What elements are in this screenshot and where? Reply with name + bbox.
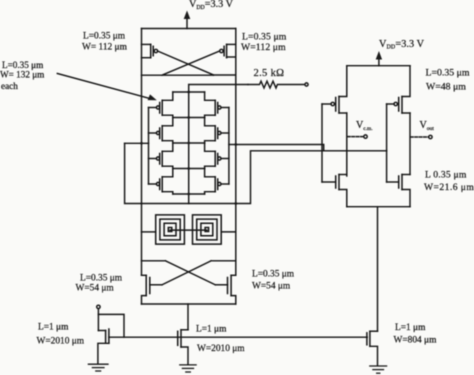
- transistor M6 (diode-connected mirror reference): [98, 329, 109, 363]
- ground (VCO tail): [180, 365, 196, 372]
- annotation arrow to varactors: [57, 74, 157, 101]
- svg-text:L=0.35 μm: L=0.35 μm: [80, 274, 123, 284]
- transistor M8 (buffer NMOS 1): [322, 175, 347, 207]
- svg-text:W=804 μm: W=804 μm: [394, 336, 438, 346]
- wire: outer-left return: [125, 143, 142, 203]
- buffer VDD rail: [347, 65, 410, 67]
- transistor M7 (buffer PMOS 1): [322, 66, 347, 113]
- wire: right inductor lead: [221, 231, 236, 233]
- right rail (node B): [235, 29, 237, 276]
- buffer source rail: [347, 206, 410, 208]
- wire: mirror gate line to tails: [109, 336, 367, 338]
- wire: VCO output to buffer (lower loop): [236, 151, 387, 204]
- left gate bus: [148, 108, 150, 185]
- varactor C2 (row 2 left): [149, 118, 173, 144]
- wire: left bus tie to rail: [125, 142, 149, 145]
- svg-text:W= 132 μm: W= 132 μm: [0, 70, 44, 80]
- svg-text:each: each: [1, 81, 18, 91]
- transistor M2 (right PMOS of cross-coupled pair): [220, 44, 236, 57]
- varactor C8 (row 4 right): [205, 169, 229, 195]
- svg-text:L=0.35 μm: L=0.35 μm: [242, 32, 287, 43]
- varactor rails (5 horizontal rungs): [173, 92, 205, 194]
- output-2 terminal: [411, 135, 433, 138]
- svg-text:L=1 μm: L=1 μm: [38, 323, 69, 333]
- buffer VDD arrow: [376, 51, 382, 66]
- varactor C3 (row 3 left): [149, 143, 173, 169]
- wire: diode tie: [98, 314, 124, 337]
- svg-text:L=0.35 μm: L=0.35 μm: [83, 32, 126, 42]
- wire: buffer tail stem: [377, 207, 379, 332]
- svg-text:W= 112 μm: W= 112 μm: [82, 43, 128, 53]
- VDD supply arrow: [184, 11, 191, 29]
- varactor C6 (row 2 right): [205, 118, 229, 144]
- svg-text:W=2010 μm: W=2010 μm: [37, 337, 85, 347]
- junction dots on center line: [187, 91, 190, 196]
- transistor M9 (buffer PMOS 2): [387, 66, 410, 113]
- svg-text:W=21.6 μm: W=21.6 μm: [424, 182, 474, 193]
- svg-text:2.5 kΩ: 2.5 kΩ: [254, 68, 285, 79]
- inductor L1 (left spiral): [156, 215, 185, 244]
- VDD top rail: [142, 28, 236, 30]
- output-1 terminal: [348, 135, 368, 138]
- svg-text:L=0.35 μm: L=0.35 μm: [252, 270, 295, 280]
- svg-text:W=54 μm: W=54 μm: [76, 284, 115, 294]
- svg-text:L 0.35 μm: L 0.35 μm: [425, 170, 467, 181]
- inductor L2 (right spiral): [193, 215, 222, 244]
- control node stub to resistor: [188, 84, 248, 92]
- ground (mirror): [88, 364, 108, 371]
- svg-text:W=112 μm: W=112 μm: [241, 42, 286, 53]
- inverter-1 gate bus: [321, 104, 323, 182]
- svg-text:L=0.35 μm: L=0.35 μm: [426, 68, 470, 79]
- NMOS pair source rail: [142, 303, 236, 305]
- svg-text:W=48 μm: W=48 μm: [426, 82, 466, 93]
- wire: inverter-2 output: [409, 113, 411, 175]
- svg-text:L=1 μm: L=1 μm: [196, 325, 227, 335]
- bias input terminal: [97, 305, 100, 330]
- wire: inverter-1 output: [346, 113, 348, 176]
- resistor R1 2.5 kOhm: [248, 81, 308, 88]
- wire: tail stem: [187, 304, 189, 330]
- svg-text:Vout: Vout: [420, 120, 435, 132]
- wire: VCO output to buffer (upper): [236, 145, 324, 151]
- svg-text:VDD=3.3 V: VDD=3.3 V: [189, 0, 234, 11]
- wire: left inductor lead: [142, 231, 156, 233]
- varactor C4 (row 4 left): [149, 169, 173, 195]
- varactor C5 (row 1 right): [205, 92, 229, 118]
- svg-text:VDD=3.3 V: VDD=3.3 V: [379, 39, 425, 51]
- svg-text:W=54 μm: W=54 μm: [252, 282, 291, 292]
- varactor C7 (row 3 right): [205, 143, 229, 169]
- transistor M4 (right NMOS of cross-coupled pair): [215, 275, 236, 304]
- wire: NMOS cross-coupling: [142, 261, 236, 285]
- inverter-2 gate bus: [386, 104, 388, 182]
- varactor array: center net line: [188, 92, 190, 204]
- svg-text:Vc.m.: Vc.m.: [356, 120, 373, 132]
- transistor M11 (buffer tail current source): [367, 331, 378, 365]
- transistor M10 (buffer NMOS 2): [387, 175, 410, 207]
- transistor M3 (left NMOS of cross-coupled pair): [142, 275, 163, 304]
- transistor M1 (left PMOS of cross-coupled pair): [142, 44, 158, 57]
- varactor box bottom rail: [142, 202, 238, 205]
- transistor M5 (VCO tail current source): [178, 330, 188, 364]
- wire: PMOS cross-coupling: [142, 51, 236, 75]
- svg-text:L=0.35 μm: L=0.35 μm: [2, 60, 43, 70]
- ground (buffer tail): [370, 366, 387, 373]
- svg-text:L=1 μm: L=1 μm: [395, 323, 426, 333]
- right gate bus: [228, 108, 230, 185]
- varactor C1 (row 1 left): [149, 92, 173, 118]
- wire: right bus tie to rail: [229, 143, 237, 146]
- wire: inductor centre link: [170, 229, 207, 231]
- left rail (node A): [141, 29, 143, 276]
- svg-text:W=2010 μm: W=2010 μm: [197, 344, 245, 354]
